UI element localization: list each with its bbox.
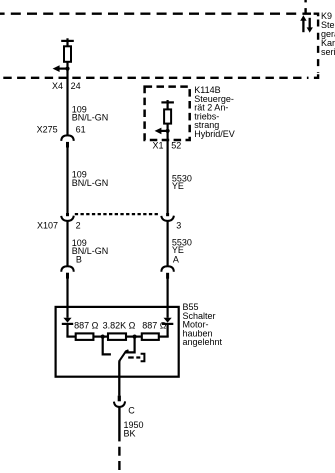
svg-text:YE: YE [172,181,184,191]
connector X275 pin 61 labels [37,124,86,134]
wire label 109 BN/L-GN (lower) + pin B [72,238,109,264]
serial data arrow down [307,18,313,33]
svg-text:BK: BK [124,429,136,439]
connector X107 pin 3 [161,216,174,221]
svg-text:B: B [76,255,82,265]
wire from fuse to X275 [66,62,68,136]
svg-text:X1: X1 [153,140,164,150]
K114B label [194,85,235,139]
svg-text:angelehnt: angelehnt [183,337,223,347]
resistor R3 887 [142,333,159,340]
arrow to other circuits (K114B) [155,128,170,135]
diode D1 (left) [62,318,73,337]
output wire from switch to C [118,360,121,396]
svg-text:X107: X107 [37,220,58,230]
switch blade [120,350,129,360]
switch actuator dashed link [128,356,140,358]
svg-text:X275: X275 [37,124,58,134]
wire X107-3 to A [167,221,169,266]
arrow to other circuits (left) [53,65,70,72]
resistor R2 3.82K [108,333,126,340]
svg-text:C: C [128,406,135,416]
B55 label [183,302,223,347]
module K9 box (dashed) [0,14,318,78]
connector B symbol [61,266,73,278]
pin label X1 52 [153,140,182,150]
wire R1 to R2 [93,336,108,338]
wire fuse K114B down to X107-3 [167,124,169,214]
svg-text:3.82K Ω: 3.82K Ω [103,320,136,330]
wire 1950 BK [118,407,120,442]
X107 dotted connector line [75,213,161,215]
fuse in K114B [161,100,174,124]
pin label X4 24 [52,81,81,91]
svg-text:X4: X4 [52,81,63,91]
svg-text:52: 52 [171,140,181,150]
wire label 1950 BK [124,420,144,438]
wire label 5530 YE (lower) + pin A [172,238,192,265]
svg-text:61: 61 [76,124,86,134]
wire label 109 BN/L-GN (mid) [72,170,109,188]
svg-text:24: 24 [71,81,81,91]
dashed continuation to ground (off-page) [118,447,120,472]
resistor value labels [74,320,167,330]
svg-text:3: 3 [176,220,181,230]
connector C symbol [114,401,125,407]
resistor R1 887 [76,333,94,340]
connector A symbol [161,266,173,278]
connector X107 pin 2 [61,216,74,221]
svg-text:serie: serie [321,47,335,57]
svg-text:887 Ω: 887 Ω [142,320,167,330]
wire R3 to diode2 [159,336,169,338]
wire R2 to R3 [126,336,142,338]
connector X275 symbol [61,135,73,147]
wire label 5530 YE (upper) [172,174,192,192]
junction J1 + fixed contact [101,335,111,355]
wire A into B55 [167,278,169,318]
svg-text:Hybrid/EV: Hybrid/EV [194,129,235,139]
wire label 109 BN/L-GN (upper) [72,104,109,122]
K9 label [321,11,335,57]
serial data wire (dashed, off-page top) [304,0,306,2]
X107 labels [37,220,181,230]
svg-text:YE: YE [172,245,184,255]
svg-text:2: 2 [76,220,81,230]
module K114B box (dashed) [145,87,190,140]
svg-text:A: A [173,255,179,265]
wire diode1 to R1 [66,336,75,338]
serial data arrow up [300,15,306,32]
fuse F? in K9 [61,38,74,62]
junction J2 + upper contact [125,335,137,353]
switch module B55 box [56,307,179,377]
diode D2 (right) [162,318,173,337]
svg-text:BN/L-GN: BN/L-GN [72,113,109,123]
wire X107-2 to B [66,221,68,266]
svg-text:887 Ω: 887 Ω [74,320,99,330]
actuator bracket [141,354,145,362]
wire X275 to X107 [66,147,68,214]
wire B into B55 [66,278,68,318]
svg-text:BN/L-GN: BN/L-GN [72,178,109,188]
